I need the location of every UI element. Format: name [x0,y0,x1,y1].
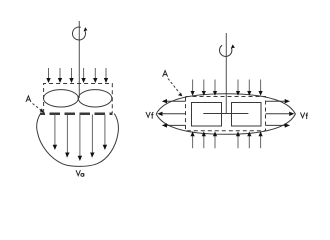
inflow arrow 5 (left fig) [94,68,96,80]
left outflow arrow middle [163,113,186,115]
rotor blade ellipse left [43,90,78,107]
rotation arrowhead (left) [84,27,88,31]
outflow arrow 2 (left fig) [66,115,68,154]
outflow arrow 5 (left fig) [104,115,106,146]
right outflow arrow bottom [266,124,286,126]
slipstream tube (left) [37,114,119,167]
slipstream ellipse (right) [156,94,295,135]
rotor blade ellipse right [78,90,112,107]
right outflow arrow top [266,100,286,102]
upwash arrow 6 (right fig bottom) [260,135,262,148]
left outflow arrow bottom [167,124,186,126]
upwash arrow 1 (right fig bottom) [192,135,194,148]
actuator disk dashed box (left) [44,84,113,114]
inflow arrow 2 (left fig) [59,68,61,80]
label v_f right [300,112,308,119]
hub block left [192,103,222,127]
inflow arrow 1 (left fig) [48,68,50,80]
leader line from A (right) [168,79,180,94]
actuator disk dashed box (right) [186,97,266,131]
upwash arrow 3 (right fig bottom) [214,135,216,148]
rotor shaft (left) [78,21,80,98]
upwash arrow 2 (right fig bottom) [203,135,205,148]
rotor shaft (right) [225,33,227,114]
disk outflow plane thick dashed line [40,112,113,115]
inflow arrow 6 (left fig) [105,68,107,80]
leader line from A (left) [33,104,42,111]
outflow arrow 4 (left fig) [91,115,93,154]
inflow arrow 1 (right fig top) [192,80,194,93]
inflow arrow 6 (right fig top) [260,80,262,93]
upwash arrow 4 (right fig bottom) [237,135,239,148]
right outflow arrow middle [266,113,290,115]
inflow arrow 3 (left fig) [71,68,73,80]
rotation arrow (right) [219,45,231,56]
label v_f left [146,112,154,119]
inflow arrow 2 (right fig top) [203,80,205,93]
hub connecting line [203,113,248,115]
inflow arrow 3 (right fig top) [214,80,216,93]
outflow arrow 3 (left fig) [79,115,81,157]
inflow arrow 5 (right fig top) [248,80,250,93]
left outflow arrow top [167,100,186,102]
label v_a [76,170,84,176]
outflow arrow 1 (left fig) [54,115,56,146]
upwash arrow 5 (right fig bottom) [248,135,250,148]
label A (right) [163,71,168,77]
label A (left) [26,96,31,102]
inflow arrow 4 (right fig top) [237,80,239,93]
inflow arrow 4 (left fig) [83,68,85,80]
rotation arrow (left) [72,27,85,40]
hub block right [232,103,262,127]
rotation arrowhead (right) [231,44,235,48]
